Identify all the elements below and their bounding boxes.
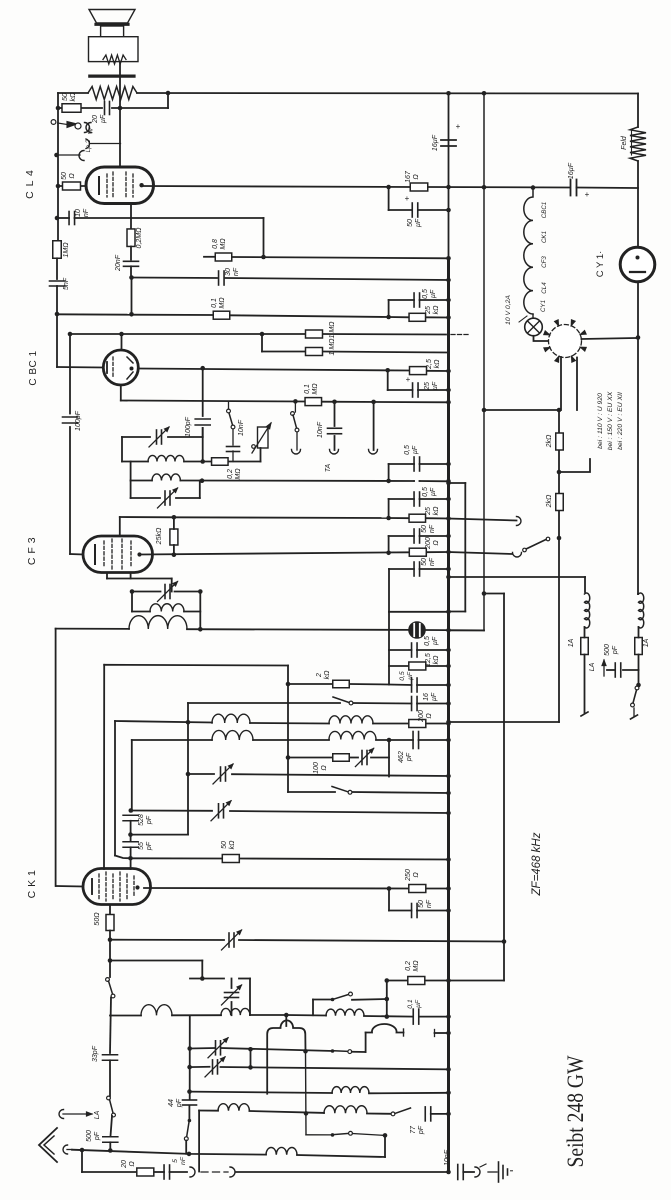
node IF2 box left	[130, 589, 135, 594]
capacitor 20 uF	[104, 102, 106, 115]
switch (band c)	[188, 1119, 192, 1123]
capacitor 528 pF	[123, 814, 138, 816]
wire x=202 drop (100pF b)	[202, 368, 204, 416]
svg-text:5nF: 5nF	[63, 277, 70, 290]
svg-text:pF: pF	[146, 815, 153, 825]
wire CF3 cathode line	[107, 578, 172, 580]
wire CBC1 plate line y=368	[138, 369, 409, 371]
svg-text:100pF: 100pF	[185, 416, 192, 437]
resistor 50 Ohm	[63, 182, 81, 190]
capacitor 0.1 uF	[412, 1009, 414, 1024]
svg-text:2kΩ: 2kΩ	[546, 434, 553, 448]
wire pickup dash	[201, 1171, 228, 1173]
node anode line rail	[446, 185, 451, 190]
wire CL4 grid feed	[58, 185, 86, 187]
fuse 1A (a)	[581, 638, 589, 655]
tube CF3 envelope	[83, 536, 153, 573]
wire CK1 grid feed	[56, 885, 83, 888]
svg-text:pF: pF	[94, 1131, 101, 1141]
svg-text:LA: LA	[589, 662, 596, 671]
node y402 rail	[446, 400, 451, 405]
capacitor 10 nF (CL4)	[68, 212, 70, 225]
wire pad1 line	[190, 1047, 215, 1050]
svg-text:kΩ: kΩ	[433, 305, 440, 315]
resistor 2.5 kOhm	[410, 367, 427, 375]
wire selector stub	[559, 459, 590, 472]
node arch-right pad1	[303, 1049, 308, 1054]
switch (band b)	[107, 1096, 111, 1100]
svg-text:100: 100	[313, 762, 320, 774]
svg-text:µF: µF	[431, 692, 438, 701]
resistor Feld (field coil)	[630, 127, 646, 161]
svg-text:nF: nF	[83, 208, 90, 217]
node y569 rail	[446, 567, 451, 572]
node y536 rail	[446, 534, 451, 539]
node y371 rail	[446, 369, 451, 374]
node y390 rail	[446, 388, 451, 393]
wire 500pF to gnd line	[109, 1142, 111, 1150]
node y334 x121	[119, 332, 124, 337]
svg-text:kΩ: kΩ	[324, 670, 331, 680]
node y1016 rail	[446, 1014, 451, 1019]
coil arch (osc)	[267, 1020, 305, 1093]
resistor 100 Ohm	[333, 754, 350, 762]
node y517 x173	[172, 515, 177, 520]
resistor 1 MOhm (c)	[306, 348, 323, 356]
svg-text:1A: 1A	[568, 638, 575, 647]
svg-text:CL4: CL4	[541, 282, 548, 294]
svg-text:+: +	[406, 375, 411, 384]
heater chain (series filaments)	[524, 188, 533, 314]
wire into CF3 grid	[70, 553, 83, 556]
node x559 y472	[557, 470, 562, 475]
wire 77pF to rail	[431, 1113, 449, 1115]
capacitor 100 pF (b)	[195, 418, 210, 420]
svg-text:50: 50	[418, 900, 425, 908]
wire y=810 trimline2	[131, 810, 212, 812]
svg-text:C L 4: C L 4	[24, 169, 36, 199]
wire 500pF mains	[623, 669, 639, 671]
wire y=999 switch line	[313, 999, 331, 1001]
tube CF3 grids	[103, 541, 105, 568]
wire y=480.5 (circuit 2)	[131, 480, 152, 482]
wire pad2 line	[190, 1066, 210, 1068]
svg-text:50: 50	[221, 841, 228, 849]
node x484 y593	[482, 591, 487, 596]
wire y=517 line (screen)	[120, 516, 174, 518]
node y517 x388	[386, 516, 391, 521]
coil IF2 primary	[132, 611, 150, 613]
coil IF3-a1	[212, 714, 250, 723]
resistor 0.2 MOhm (CL4 grid)	[127, 229, 135, 247]
svg-text:nF: nF	[429, 524, 436, 533]
tube CBC1 envelope	[103, 350, 138, 385]
resistor 0.2 MOhm (b)	[212, 458, 229, 466]
arrow 500pF mains	[603, 660, 605, 676]
capacitor 16 uF (1)	[441, 139, 456, 141]
wire rail 286-314	[56, 286, 58, 314]
tube CY1 anode dot	[636, 256, 640, 260]
wire 0.5uF (e)	[389, 684, 412, 687]
node 50uF rail	[446, 208, 451, 213]
svg-text:0,5: 0,5	[399, 671, 406, 681]
trimmer mixer	[361, 751, 363, 765]
lamp 10V 0.2A	[525, 318, 543, 336]
svg-text:C BC 1: C BC 1	[28, 350, 39, 385]
wire choke2 down	[638, 627, 640, 638]
wire x=504 drop	[484, 593, 504, 595]
wire mains line y=577	[449, 576, 586, 578]
node y280 rail	[446, 278, 451, 283]
wire arch tap	[285, 1015, 287, 1026]
capacitor 10 nF (b)	[328, 427, 342, 429]
jack contact y554	[513, 553, 522, 558]
wire CK1 cathode stub	[109, 905, 111, 916]
wire drop to IF2	[171, 579, 173, 592]
svg-text:5: 5	[172, 1159, 179, 1163]
node y685 rail	[446, 683, 451, 688]
wire CK1 grid-top drop	[103, 665, 105, 869]
svg-text:C K 1: C K 1	[26, 870, 38, 899]
tube CF3 cathode	[94, 545, 96, 564]
node anode line heater tap	[531, 185, 536, 190]
tube CBC1 grid dashes	[112, 357, 114, 378]
wire x386 drop	[386, 981, 388, 1017]
svg-text:µF: µF	[412, 445, 419, 454]
wire x202 drop	[201, 961, 203, 979]
wire row-b	[199, 1110, 218, 1112]
node y630 rail	[446, 628, 451, 633]
wire mixer 100R line	[288, 757, 333, 759]
left rail top segment	[57, 93, 59, 241]
wire 0.2M to 20nF	[130, 247, 132, 260]
node y859 rail	[446, 857, 451, 862]
wire indicator	[425, 629, 484, 631]
node y337 right	[636, 335, 641, 340]
coil IF3-b2	[329, 731, 376, 739]
svg-text:Ω: Ω	[69, 173, 76, 179]
wire mains prong 2	[633, 708, 635, 716]
coil osc-b	[221, 1008, 250, 1015]
node y650 rail	[446, 648, 451, 653]
svg-text:44: 44	[168, 1099, 175, 1107]
resistor 0.8 MOhm	[215, 253, 232, 261]
wire pickup drop	[81, 1150, 83, 1172]
switch (77pF)	[391, 1112, 395, 1116]
wire IF2 trimmer line	[132, 591, 161, 593]
node y611 rail	[446, 610, 451, 615]
wire y=1172 line	[82, 1171, 137, 1173]
coil tuned-1	[148, 455, 184, 461]
node IF2 sec x200	[198, 627, 203, 632]
wire x262 334-351	[261, 334, 263, 352]
coil tuned-2	[152, 474, 180, 481]
switch (band d)	[331, 1133, 335, 1137]
node y960 x110	[108, 958, 113, 963]
resistor 25 kOhm (c)	[170, 529, 178, 545]
coil mains choke 1	[585, 593, 590, 628]
svg-text:TA: TA	[325, 463, 332, 472]
svg-text:167: 167	[405, 170, 412, 183]
node y834 x130	[128, 832, 133, 837]
svg-text:250: 250	[405, 869, 412, 882]
ground symbol	[488, 1171, 497, 1173]
node top bus / rail B+	[446, 91, 451, 96]
resistor 250 Ohm	[409, 885, 426, 893]
jack arc (switch)	[292, 450, 301, 455]
node y317 rail	[446, 315, 451, 320]
svg-text:500: 500	[86, 1130, 93, 1142]
node y499 rail	[446, 497, 451, 502]
trimmer osc-1	[228, 933, 230, 947]
resistor 0.1 MOhm (b)	[305, 398, 322, 406]
capacitor 0.5 uF (a)	[413, 293, 415, 307]
coil row-a	[332, 1087, 369, 1093]
wire y=684 (2k line)	[288, 683, 333, 685]
svg-text:0,2MΩ: 0,2MΩ	[136, 227, 143, 249]
tube CF3 anode dot	[137, 552, 141, 556]
tube CL4 cathode	[98, 177, 100, 194]
svg-text:Ω: Ω	[321, 765, 328, 771]
node row-a x189	[187, 1089, 192, 1094]
capacitor 55 pF	[123, 841, 138, 843]
wire rail2 bottom corner	[450, 630, 484, 632]
coil mains choke 2	[639, 593, 644, 628]
wire grid line y=334	[70, 333, 306, 335]
wire CBC1 bottom stub	[120, 385, 122, 401]
svg-text:2kΩ: 2kΩ	[546, 494, 553, 508]
capacitor 44 pF	[183, 1099, 197, 1101]
wire top bus y=93	[58, 92, 88, 94]
node x202 y978	[200, 976, 205, 981]
svg-text:MΩ: MΩ	[312, 383, 319, 395]
wire y=401 line	[121, 401, 305, 402]
rail B+ (thick)	[448, 93, 450, 260]
tube CK1 electrodes	[91, 879, 93, 894]
node y813 rail	[446, 811, 451, 816]
node y1016 x386	[385, 1014, 390, 1019]
coil row-b1	[218, 1104, 249, 1111]
wire y=940 line	[110, 939, 224, 941]
node y518 rail	[446, 516, 451, 521]
switch (coupling a)	[331, 998, 335, 1002]
speaker jack arcs	[79, 151, 84, 161]
jack LA	[59, 1110, 63, 1119]
svg-text:MΩ: MΩ	[220, 238, 227, 250]
capacitor 0.5 uF (c)	[413, 492, 415, 506]
svg-text:10nF: 10nF	[317, 421, 324, 438]
svg-text:10 V 0,2A: 10 V 0,2A	[505, 295, 512, 325]
svg-text:Feld: Feld	[621, 135, 628, 150]
node y218 left	[55, 216, 60, 221]
wire y=858 line (50k)	[131, 857, 223, 859]
jack pickup a	[190, 1167, 195, 1177]
node y939 x110	[108, 937, 113, 942]
node y257 x263	[261, 255, 266, 260]
svg-text:kΩ: kΩ	[229, 840, 236, 850]
svg-text:Ω: Ω	[413, 872, 420, 878]
wire y=277 line	[132, 277, 218, 280]
capacitor 50 uF	[411, 203, 413, 217]
coil coupling loop	[366, 1024, 404, 1033]
tube CL4 envelope	[86, 167, 154, 204]
wire y=722 (IF3 line)	[115, 721, 212, 723]
resistor 2 kOhm (c)	[333, 680, 350, 688]
node y810 x130	[129, 808, 134, 813]
indicator lamp (striped)	[409, 622, 425, 638]
node y155	[54, 153, 59, 158]
wire y=108 line	[58, 107, 62, 109]
node y258 rail	[446, 256, 451, 261]
capacitor 0.5 uF (d)	[411, 643, 413, 657]
svg-text:kΩ: kΩ	[434, 359, 441, 369]
coil IF3-b1	[212, 730, 253, 740]
wire between caps	[130, 821, 132, 841]
capacitor 20 nF	[124, 260, 139, 262]
node y402 x373	[371, 400, 376, 405]
wire pot bottom	[260, 448, 262, 462]
terminal open circle	[51, 120, 56, 125]
node y792 rail	[446, 791, 451, 796]
wire x=389 stack bus	[388, 612, 390, 685]
wire x=288 drop	[287, 666, 289, 793]
wire x=131.8 drop	[131, 740, 133, 811]
wire 20nF down	[130, 266, 132, 277]
svg-text:2: 2	[316, 673, 323, 678]
wire CK1 anode line y=888	[144, 887, 409, 890]
svg-text:0,1: 0,1	[304, 384, 311, 394]
trimmer osc padder	[225, 992, 239, 994]
svg-text:nF: nF	[233, 267, 240, 276]
svg-text:kΩ: kΩ	[433, 655, 440, 665]
svg-text:20: 20	[121, 1160, 128, 1169]
svg-text:0,5: 0,5	[422, 289, 429, 299]
svg-text:16µF: 16µF	[568, 162, 575, 179]
resistor 50 kOhm (osc)	[222, 855, 239, 863]
wire osc box sides	[249, 979, 251, 1016]
node y401 x295	[293, 399, 298, 404]
node x385 switch	[383, 1133, 388, 1138]
switch (tone)	[227, 409, 231, 413]
node y888 x389	[387, 886, 392, 891]
svg-text:0,2: 0,2	[405, 961, 412, 971]
svg-text:Ω: Ω	[433, 540, 440, 546]
node y980 x386	[385, 978, 390, 983]
svg-text:10: 10	[75, 209, 82, 217]
trimmer IF-t1	[220, 767, 222, 781]
svg-text:W: W	[88, 127, 95, 134]
wire x=188 drop	[187, 703, 189, 835]
node y1113 rail	[446, 1112, 451, 1117]
svg-text:16: 16	[423, 693, 430, 701]
capacitor 500 pF (ant)	[103, 1136, 118, 1138]
svg-text:MΩ: MΩ	[235, 468, 242, 480]
node y666 rail	[446, 664, 451, 669]
wire y=960 line	[110, 960, 202, 962]
svg-text:12,5: 12,5	[425, 653, 432, 667]
node pad2 rail	[446, 1067, 451, 1072]
svg-text:nF: nF	[426, 899, 433, 908]
wire 100R box	[388, 740, 390, 777]
node y554 x173	[172, 552, 177, 557]
node y722 rail	[446, 720, 451, 725]
svg-text:0,5: 0,5	[404, 445, 411, 455]
trimmer pad-2	[212, 1060, 214, 1074]
svg-text:20nF: 20nF	[115, 254, 122, 272]
capacitor 462 pF	[412, 732, 414, 749]
node row-a rail	[446, 1091, 451, 1096]
wire y=722 return	[449, 721, 560, 723]
svg-text:25kΩ: 25kΩ	[156, 527, 163, 545]
trimmer tuned-2	[164, 491, 166, 505]
node y577 rail	[446, 575, 451, 580]
svg-text:0,1: 0,1	[211, 298, 218, 308]
wire y=1015 oscillator line	[110, 1015, 141, 1017]
node y317 x388	[386, 315, 391, 320]
wire mains prong 1	[581, 712, 588, 716]
wire tap drop x=168	[167, 93, 169, 108]
wire IF2 box sides	[131, 592, 133, 612]
node y334 x262	[260, 332, 265, 337]
node y108 x120	[118, 106, 123, 111]
resistor 50 Ohm (osc)	[106, 915, 114, 931]
wire 25uF branch	[387, 370, 389, 390]
wire 0.5uF (d)	[389, 649, 412, 651]
node y740 rail	[446, 738, 451, 743]
wire jog x=465	[449, 482, 466, 484]
switch (coupling b)	[331, 1049, 335, 1053]
wire y=739 (IF3 line2)	[132, 739, 212, 741]
svg-text:10nF: 10nF	[238, 419, 245, 436]
wire band-c to gnd	[185, 1141, 187, 1154]
node y480 x202	[200, 478, 205, 483]
svg-text:0,1: 0,1	[407, 999, 414, 1009]
node y1150 x82	[80, 1148, 85, 1153]
svg-text:20: 20	[92, 115, 99, 124]
svg-text:+: +	[456, 122, 461, 131]
node y461 x202	[200, 459, 205, 464]
node pad1 x250	[248, 1047, 253, 1052]
capacitor 10 nF (c)	[227, 446, 240, 448]
wire x110 997-1053	[110, 998, 111, 1054]
wire x263 down	[263, 218, 265, 257]
resistor 25 kOhm (a)	[409, 313, 426, 321]
svg-text:bei : 220 V : EU XII: bei : 220 V : EU XII	[617, 392, 624, 450]
wire row-a	[190, 1092, 333, 1093]
node y334 x70	[68, 332, 73, 337]
svg-text:+: +	[585, 190, 590, 199]
resistor 0.1 MOhm (a)	[213, 311, 230, 319]
svg-text:0,8: 0,8	[212, 239, 219, 249]
svg-text:CK1: CK1	[541, 231, 548, 243]
wire 50nF (b) link	[389, 568, 414, 570]
svg-text:bei : 110 V : U 920: bei : 110 V : U 920	[597, 393, 604, 449]
wire CF3 bottom stubs	[106, 573, 108, 579]
wire 50nF (c)	[389, 910, 412, 912]
wire output transformer to CL4 anode	[119, 62, 121, 167]
switch (AF)	[349, 701, 353, 705]
node y776 rail	[446, 774, 451, 779]
svg-text:C F 3: C F 3	[26, 537, 38, 565]
svg-text:1 MΩ: 1 MΩ	[329, 338, 336, 356]
capacitor 33 pF	[103, 1054, 118, 1056]
svg-text:pF: pF	[406, 752, 413, 762]
svg-text:33pF: 33pF	[92, 1045, 99, 1062]
socket (voltage selector)	[549, 325, 582, 358]
node y368 x202	[200, 366, 205, 371]
wire IF2 secondary line	[56, 628, 129, 630]
capacitor 77 pF	[424, 1107, 426, 1121]
